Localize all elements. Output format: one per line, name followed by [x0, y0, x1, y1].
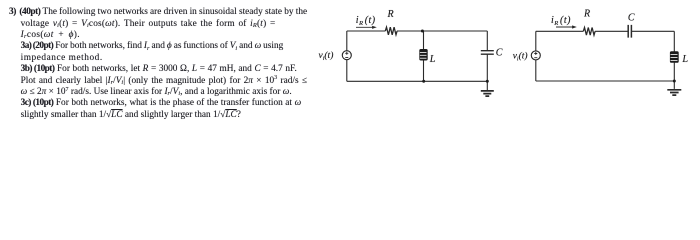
wire: resistor R2 to capacitor C2	[595, 30, 628, 32]
node D junction dot (ground network 2)	[673, 80, 676, 83]
wire: resistor R1 to node A	[397, 30, 423, 32]
svg-text:R: R	[583, 9, 590, 20]
svg-text:iR(t): iR(t)	[356, 15, 376, 27]
V2 minus sign	[534, 57, 537, 59]
wire: left rail upper network 2	[535, 31, 537, 51]
inductor L2 coil	[670, 51, 679, 63]
resistor R1	[385, 27, 397, 35]
wire: right rail upper (corner to inductor L2)	[673, 31, 675, 52]
ground G2 bars	[667, 90, 681, 95]
voltage source V1	[342, 51, 351, 60]
svg-text:iR(t): iR(t)	[551, 15, 571, 27]
svg-text:C: C	[628, 13, 635, 24]
wire: inductor L2 lower lead	[673, 62, 675, 82]
node B junction dot (inductor bottom)	[422, 80, 425, 83]
svg-text:vi(t): vi(t)	[513, 51, 528, 63]
wire: right branch upper (corner to capacitor C1)	[486, 31, 488, 51]
wire: inductor branch lower lead	[423, 60, 425, 82]
svg-text:C: C	[496, 48, 503, 59]
current arrow i_R(t) network 1	[356, 26, 377, 29]
ground G2 stub	[673, 81, 675, 89]
capacitor C1 plates	[481, 51, 494, 55]
ground G1 bars	[481, 91, 494, 96]
wire: inductor branch upper lead	[423, 31, 425, 50]
wire: bottom rail network 1	[347, 80, 488, 82]
svg-text:L: L	[429, 54, 436, 65]
svg-text:R: R	[386, 9, 393, 20]
inductor L1 coil	[419, 49, 427, 61]
ground G1 stub	[486, 81, 488, 90]
node A junction dot	[421, 30, 424, 33]
wire: left rail lower (source - to bottom-left corner)	[346, 60, 348, 82]
voltage source V2	[531, 51, 540, 60]
current arrow i_R(t) network 2	[556, 25, 577, 28]
wire: capacitor C1 to bottom node	[486, 54, 488, 81]
wire: bottom rail network 2	[536, 80, 675, 82]
wire: left rail upper (source + to top-left corner)	[346, 31, 348, 51]
capacitor C2 plates	[628, 25, 631, 38]
V2 plus sign	[534, 52, 537, 55]
problem text block	[9, 7, 307, 18]
wire: top wire corner to resistor R2	[536, 30, 584, 32]
V1 minus sign	[345, 57, 348, 59]
wire: left rail lower network 2	[535, 60, 537, 81]
svg-text:L: L	[681, 54, 688, 65]
wire: top wire source corner to resistor R1	[347, 30, 386, 32]
wire: node A to top-right corner	[422, 30, 487, 32]
node C junction dot (capacitor/ground)	[486, 80, 489, 83]
svg-text:vi(t): vi(t)	[319, 50, 334, 62]
wire: capacitor C2 to top-right corner	[631, 30, 674, 32]
resistor R2	[583, 28, 595, 36]
V1 plus sign	[345, 52, 348, 55]
